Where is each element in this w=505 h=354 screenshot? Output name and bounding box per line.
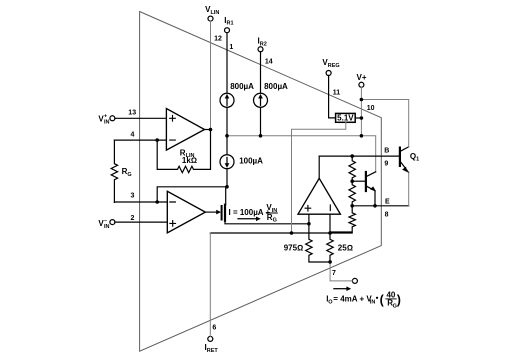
IC body big triangle outline	[140, 12, 382, 352]
svg-text:4: 4	[130, 132, 134, 139]
wire FET source	[225, 221, 309, 224]
svg-text:2: 2	[130, 215, 134, 222]
svg-text:10: 10	[367, 105, 375, 112]
wire pin4	[114, 139, 166, 141]
svg-text:G: G	[393, 303, 397, 309]
transistor Q1 external	[399, 148, 401, 166]
current source 100uA	[226, 136, 228, 155]
svg-text:100µA: 100µA	[239, 157, 263, 166]
op-amp A1	[166, 109, 204, 151]
svg-text:IN: IN	[104, 224, 110, 230]
wire I_R1 vertical	[226, 33, 228, 94]
junction base drive to resistor chain	[350, 154, 354, 158]
wire A3 -in / 25 ohm	[327, 214, 333, 262]
junction V+ line to Q1 collector wire	[360, 98, 364, 102]
wire 100uA bottom to FET drain node	[226, 169, 228, 187]
resistor chain top R_a	[349, 156, 355, 181]
junction 5.1V return to ground rail	[290, 231, 294, 235]
wire pin3	[114, 201, 167, 203]
node Q2 base junction	[350, 179, 354, 183]
junction IR1 source to V+ rail	[225, 134, 229, 138]
wire A3 +in / 975 ohm	[306, 214, 330, 262]
resistor R_LIN feedback loop	[157, 130, 210, 173]
wire node3 up-over to FET drain node	[157, 187, 227, 202]
svg-text:800µA: 800µA	[230, 82, 254, 91]
wire base drive B	[319, 155, 399, 157]
svg-text:9: 9	[384, 160, 388, 167]
terminal I_O pin7	[352, 278, 357, 283]
svg-text:•: •	[376, 294, 379, 303]
wire V+ vertical	[360, 87, 362, 136]
5.1V zener box	[336, 113, 356, 122]
junction Q2 emitter to E line	[373, 204, 377, 208]
node A3 non-inverting input junction	[307, 222, 311, 226]
terminal I_R1	[225, 28, 230, 33]
wire emitter E line	[352, 205, 409, 207]
svg-text:7: 7	[332, 270, 336, 277]
junction IR2 source to V+ rail	[259, 134, 263, 138]
resistor R_G external	[111, 140, 117, 202]
current source 800uA #1	[220, 93, 234, 107]
wire V_REG to 5.1V box	[329, 76, 336, 118]
resistor chain middle R_b	[349, 181, 355, 205]
wire V_LIN vertical	[210, 21, 212, 129]
svg-text:RG: RG	[122, 167, 132, 178]
wire pin13	[115, 117, 166, 119]
svg-text:6: 6	[212, 324, 216, 331]
svg-text:+: +	[104, 114, 107, 120]
output arrow	[334, 288, 347, 290]
svg-text:1kΩ: 1kΩ	[182, 156, 197, 165]
node FET drain / 100uA junction	[225, 185, 229, 189]
flow arrow under label	[238, 218, 257, 220]
transistor Q2 internal	[365, 172, 367, 191]
svg-text:): )	[397, 293, 401, 307]
svg-text:(: (	[380, 293, 385, 307]
wire I_R2 vertical	[260, 52, 262, 93]
svg-text:VREG: VREG	[322, 58, 339, 69]
op-amp A3 output stage	[298, 178, 340, 214]
op-amp A2	[167, 191, 205, 233]
current source 800uA #2	[254, 93, 268, 107]
svg-text:13: 13	[128, 109, 136, 116]
junction chain to emitter line	[350, 204, 354, 208]
svg-text:= 4mA + V: = 4mA + V	[333, 294, 372, 303]
wire I_RET vertical	[209, 233, 211, 336]
svg-text:B: B	[384, 148, 389, 155]
terminal V+	[359, 82, 364, 87]
wire Q1 collector to V+	[361, 100, 408, 147]
wire Q1 emitter down to E	[408, 173, 410, 206]
terminal I_RET	[208, 336, 213, 341]
svg-text:V+: V+	[357, 73, 367, 82]
wire pin2	[115, 221, 167, 223]
svg-text:IR2: IR2	[258, 37, 267, 48]
terminal V_IN-	[110, 220, 115, 225]
svg-text:IR1: IR1	[224, 16, 233, 27]
terminal V_LIN	[208, 16, 213, 21]
svg-text:11: 11	[333, 89, 341, 96]
wire box right to V+ line	[355, 117, 361, 119]
resistor chain bottom R_c	[330, 206, 355, 232]
svg-text:8: 8	[385, 211, 389, 218]
wires 800uA bottoms	[226, 107, 228, 136]
wire A2 output arrow to FET gate	[205, 211, 217, 213]
FET pass transistor	[225, 187, 227, 205]
terminal V_REG	[326, 71, 331, 76]
node output sense junction	[328, 260, 332, 264]
svg-text:3: 3	[130, 192, 134, 199]
svg-text:5.1V: 5.1V	[337, 114, 354, 123]
svg-text:12: 12	[214, 35, 222, 42]
junction V+ line to 5.1V box	[360, 116, 364, 120]
terminal V_IN+	[110, 116, 115, 121]
svg-text:1: 1	[229, 44, 233, 51]
svg-text:E: E	[385, 198, 390, 205]
junction V+ rail to V+ pin line	[360, 134, 364, 138]
wire pin7 output	[330, 262, 352, 281]
terminal I_R2	[258, 47, 263, 52]
wire internal V+ rail	[227, 136, 376, 172]
svg-text:IRET: IRET	[205, 343, 219, 354]
wire return rail y233	[210, 232, 352, 234]
wire box bottom jog to A3 minus rail	[292, 122, 346, 233]
node pin3 / A2 inverting input junction	[155, 200, 159, 204]
svg-text:Q1: Q1	[410, 152, 419, 163]
wire A1 output	[205, 129, 211, 131]
svg-text:VLIN: VLIN	[205, 5, 219, 16]
svg-text:RG: RG	[267, 213, 277, 224]
node A3 inverting input / 25 ohm junction	[328, 231, 332, 235]
svg-text:I = 100µA +: I = 100µA +	[229, 208, 271, 217]
svg-text:IN: IN	[104, 120, 110, 126]
node A1 output / V_LIN junction	[209, 128, 213, 132]
node pin4 / A1 inverting input junction	[155, 138, 159, 142]
svg-text:14: 14	[265, 58, 273, 65]
svg-text:800µA: 800µA	[264, 82, 288, 91]
svg-text:IN: IN	[370, 299, 376, 305]
svg-text:–: –	[104, 218, 107, 224]
svg-text:25Ω: 25Ω	[338, 244, 353, 253]
svg-text:975Ω: 975Ω	[284, 244, 304, 253]
wire A3 output up to base line	[318, 156, 320, 178]
